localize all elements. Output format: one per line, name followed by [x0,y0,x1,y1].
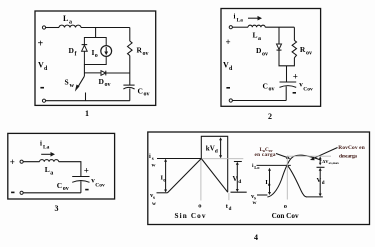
svg-text:w: w [152,163,156,169]
svg-text:ov,max: ov,max [329,161,340,165]
svg-text:Cov: Cov [303,87,313,93]
svg-text:Con Cov: Con Cov [272,212,299,220]
svg-text:L: L [63,14,68,23]
svg-text:V: V [233,175,238,183]
svg-text:d: d [238,179,241,185]
svg-text:S: S [65,78,69,87]
svg-text:ov: ov [269,87,275,93]
svg-text:+: + [293,72,298,82]
svg-text:a: a [50,171,53,177]
svg-text:i: i [149,153,151,160]
svg-text:ov: ov [105,82,111,88]
svg-text:La: La [43,145,50,151]
svg-text:+: + [84,165,89,175]
svg-text:descarga: descarga [339,154,357,160]
svg-text:a: a [69,20,72,26]
svg-text:w: w [152,201,156,207]
svg-text:1: 1 [85,109,89,118]
svg-text:+: + [38,39,44,50]
svg-text:Cov: Cov [95,183,105,189]
svg-text:RovCov en: RovCov en [338,145,364,151]
svg-text:C: C [57,181,62,190]
svg-text:ov: ov [144,92,150,98]
svg-text:Sin Cov: Sin Cov [175,212,206,220]
svg-text:ov: ov [306,51,312,57]
svg-text:C: C [263,82,268,91]
svg-text:en carga: en carga [255,152,276,158]
svg-text:4: 4 [254,233,258,242]
svg-text:s: s [152,157,154,162]
svg-text:L: L [45,165,50,174]
svg-text:ov: ov [143,51,149,57]
svg-text:C: C [138,87,143,96]
svg-text:o: o [95,53,98,59]
svg-text:2: 2 [268,112,272,121]
svg-text:w: w [253,200,257,206]
svg-text:a: a [258,36,261,42]
svg-text:+: + [226,37,231,47]
svg-text:d: d [322,181,325,186]
svg-text:L: L [253,31,258,40]
svg-text:R: R [300,45,306,54]
svg-text:3: 3 [55,204,59,213]
svg-text:o: o [198,203,201,210]
svg-text:kV: kV [206,145,215,153]
svg-text:o: o [284,203,287,210]
svg-text:w: w [70,82,75,89]
svg-text:i: i [234,13,236,21]
svg-text:ov: ov [63,186,69,192]
svg-text:ov: ov [262,52,268,58]
svg-text:d: d [215,149,218,155]
svg-text:La: La [237,18,244,24]
svg-text:+: + [10,157,15,167]
svg-text:d: d [229,207,232,212]
svg-text:i: i [40,140,42,148]
